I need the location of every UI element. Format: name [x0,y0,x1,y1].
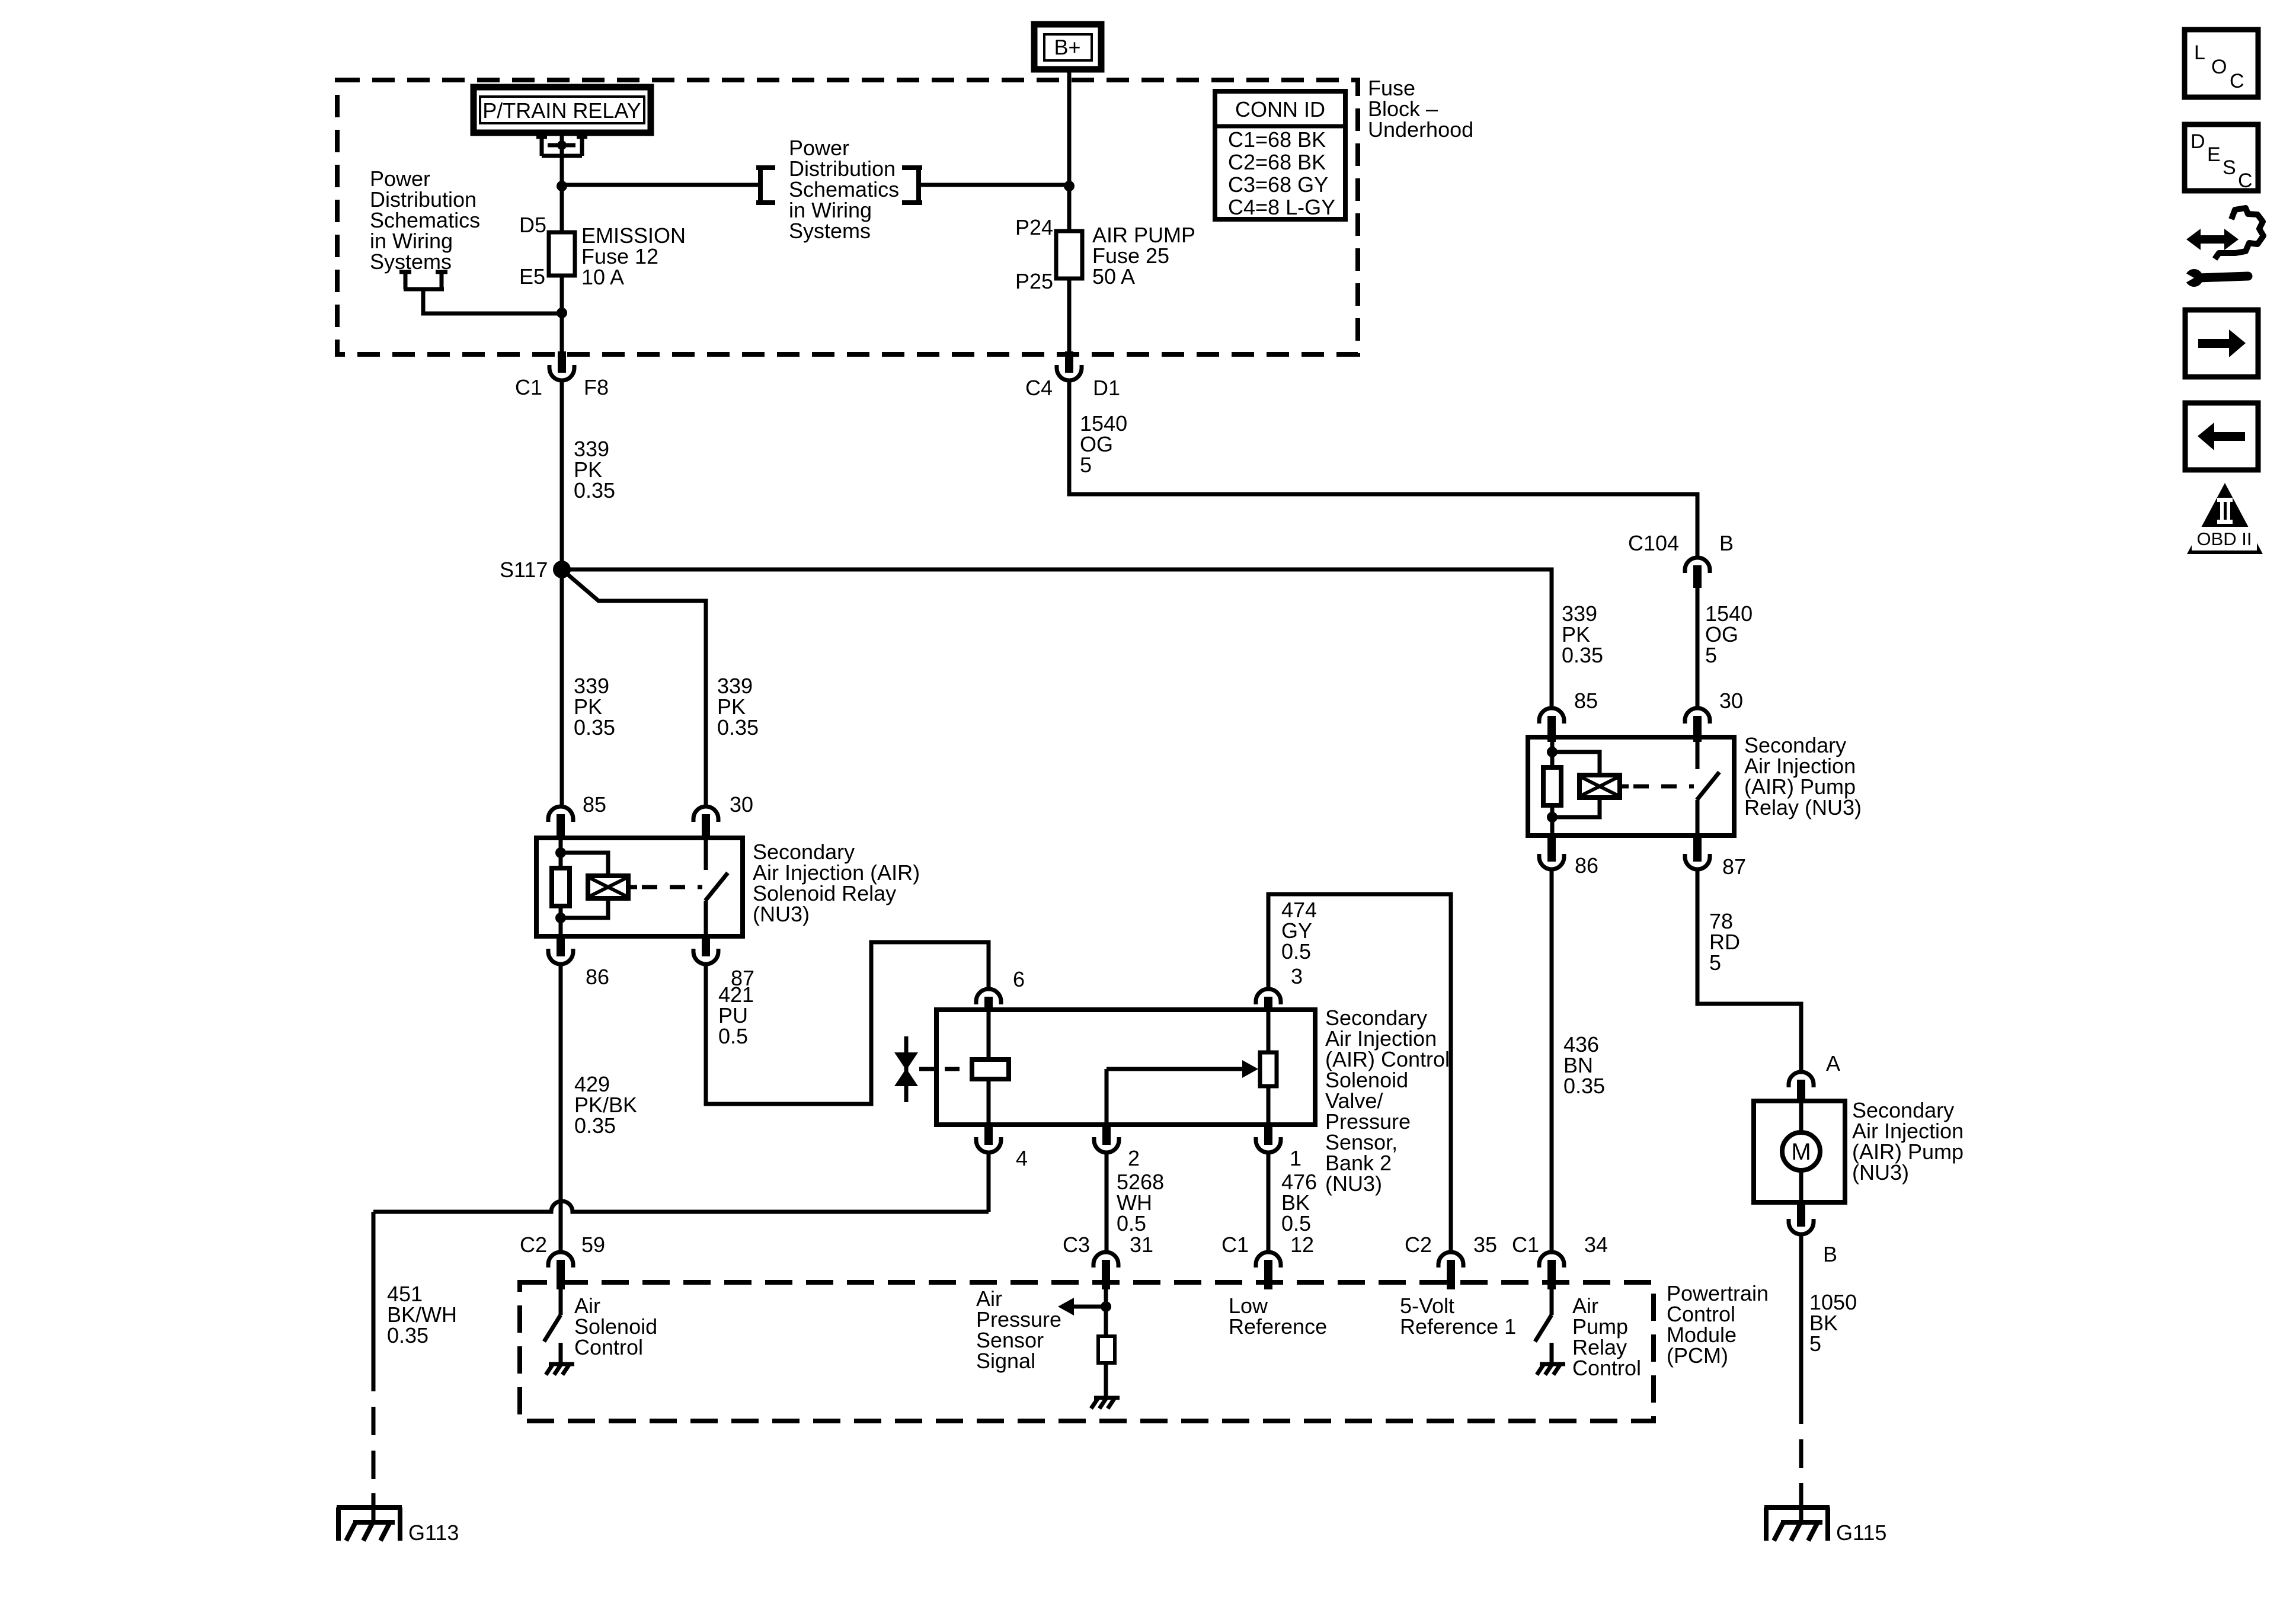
svg-text:Underhood: Underhood [1368,117,1473,142]
wire 451 BK/WH from valve pin 4 to ground G113 (hops over 429 wire) [373,1154,989,1507]
svg-text:(NU3): (NU3) [753,902,810,926]
power distribution reference brackets (middle) [756,165,775,205]
CONN ID table [1215,91,1345,219]
wire resistor to ground [1104,1363,1108,1397]
svg-text:B+: B+ [1054,35,1080,59]
left reference bracket [399,272,447,289]
svg-text:G115: G115 [1836,1521,1886,1545]
svg-text:B: B [1823,1242,1837,1266]
svg-text:(NU3): (NU3) [1852,1160,1909,1185]
fuse block underhood dashed box [337,80,1358,354]
svg-text:C1: C1 [1512,1233,1539,1257]
connector pin 2 of valve [1094,1137,1119,1153]
svg-text:87: 87 [1722,854,1746,879]
svg-text:86: 86 [1575,853,1598,878]
junction dot B+ branch on P/TRAIN wire [557,181,567,191]
svg-text:C1=68 BK: C1=68 BK [1228,127,1326,152]
wire from pin1 to PCM C1/12 [1267,1154,1271,1250]
relay: Secondary Air Injection (AIR) Solenoid Relay (NU3) [536,838,743,936]
svg-text:C2: C2 [520,1233,547,1257]
svg-text:12: 12 [1290,1233,1314,1257]
icon LOC [2185,30,2258,97]
svg-text:5: 5 [1080,453,1092,477]
wire 1540 OG from C4/D1 to C104 [1069,381,1697,556]
connector pin 30 of solenoid relay [693,806,718,822]
ground (air pump relay control) [1537,1364,1565,1375]
air solenoid control driver switch [544,1289,561,1363]
svg-text:CONN ID: CONN ID [1235,97,1325,121]
svg-text:30: 30 [730,792,753,817]
AIR control solenoid valve / pressure sensor box [936,1010,1315,1125]
icon OBD II triangle [2187,483,2263,554]
connector pin 30 of pump relay [1685,708,1710,724]
connector C104 B [1685,558,1710,573]
svg-text:34: 34 [1584,1233,1608,1257]
relay: Secondary Air Injection (AIR) Pump Relay (NU3) [1528,737,1734,836]
svg-text:L: L [2194,41,2205,64]
junction dot on B+ wire [1064,181,1075,191]
connector C2 59 (PCM) [548,1252,573,1267]
svg-text:S: S [2223,156,2236,179]
connector B of AIR pump [1789,1219,1814,1234]
svg-text:C2=68 BK: C2=68 BK [1228,150,1326,174]
P/TRAIN RELAY box [474,87,651,133]
connector pin 87 of pump relay [1685,854,1710,869]
connector pin 1 of valve [1256,1137,1281,1153]
ground G115 [1764,1493,1830,1541]
wire from left reference to EMISSION fuse wire [423,290,562,313]
svg-text:E5: E5 [519,264,545,289]
wire 1540 OG from C104 to pump relay 30 [1696,588,1700,706]
pressure sensor element (potentiometer) [1267,1010,1271,1052]
connector pin 4 of valve [976,1137,1001,1153]
EMISSION Fuse 12 10A fuse symbol [560,232,564,354]
svg-text:D5: D5 [519,213,546,237]
svg-text:0.35: 0.35 [574,715,615,740]
connector A of AIR pump [1789,1072,1814,1087]
svg-text:G113: G113 [408,1521,459,1545]
AIR PUMP Fuse 25 50A fuse symbol [1067,231,1072,354]
connector C3 31 (PCM) [1093,1252,1118,1267]
svg-text:0.35: 0.35 [1562,643,1603,667]
svg-text:0.35: 0.35 [574,478,615,502]
ground G113 [337,1493,402,1541]
svg-text:(NU3): (NU3) [1325,1172,1382,1196]
svg-text:0.35: 0.35 [717,715,759,740]
svg-text:10 A: 10 A [581,265,624,289]
solenoid coil in valve box [987,1010,991,1125]
svg-text:3: 3 [1291,964,1303,988]
svg-text:30: 30 [1719,689,1743,713]
svg-text:A: A [1826,1051,1840,1076]
svg-text:D1: D1 [1093,376,1120,400]
svg-text:5: 5 [1705,643,1717,667]
wire 421 PU from 87 to AIR control solenoid valve pin 6 [706,942,989,1104]
svg-text:(PCM): (PCM) [1667,1343,1728,1368]
connector C2 35 (PCM) [1438,1252,1463,1267]
svg-text:6: 6 [1013,967,1025,991]
connector pin 86 of pump relay [1539,854,1564,869]
input resistor [1098,1336,1115,1363]
svg-text:4: 4 [1016,1146,1028,1170]
connector C1 F8 (fuse block exit) [549,365,574,380]
connector pin 85 of pump relay [1539,708,1564,724]
svg-text:S117: S117 [500,558,548,582]
connector pin 86 of solenoid relay [548,949,573,964]
svg-text:0.5: 0.5 [718,1024,748,1048]
svg-text:5: 5 [1709,950,1721,975]
icon diagnostic car and wrench [2182,208,2263,287]
svg-text:0.5: 0.5 [1281,1211,1311,1235]
svg-text:0.5: 0.5 [1281,939,1311,964]
svg-text:0.5: 0.5 [1117,1211,1146,1235]
svg-text:OBD II: OBD II [2196,529,2252,549]
connector C1 34 (PCM) [1539,1252,1564,1267]
splice S117 [553,561,571,578]
svg-text:1: 1 [1290,1146,1302,1170]
svg-text:Signal: Signal [976,1349,1035,1373]
air pump relay control driver switch [1535,1289,1552,1363]
svg-text:F8: F8 [584,375,609,399]
wire mid horizontal to power distribution reference [562,183,758,187]
connector pin 6 of AIR control solenoid valve [976,989,1001,1004]
ground (air solenoid control) [546,1364,574,1375]
svg-text:B: B [1719,531,1734,555]
svg-text:85: 85 [583,792,606,817]
svg-text:C2: C2 [1405,1233,1432,1257]
P/TRAIN relay cavity connector symbol [536,133,587,232]
connector C1 12 (PCM) [1256,1252,1281,1267]
connector C4 D1 (fuse block exit) [1057,365,1082,380]
dashed link bowtie to solenoid coil [919,1067,970,1071]
connector pin 3 of AIR control solenoid valve [1256,989,1281,1004]
svg-text:E: E [2207,143,2221,166]
right bracket of middle reference [902,165,922,205]
pressure sensor wiper arrow [1107,1067,1242,1071]
AIR pump box with motor [1754,1101,1845,1202]
wire 429 PK/BK from 86 down to PCM C2/59 [559,966,563,1250]
svg-text:C1: C1 [1221,1233,1249,1257]
wire from reference to B+ wire [921,183,1069,187]
pin2 lead inside valve box [1105,1069,1109,1125]
svg-text:0.35: 0.35 [387,1323,428,1347]
svg-text:C3: C3 [1063,1233,1090,1257]
wire S117 long horizontal to AIR pump relay 85 [562,569,1552,706]
svg-text:0.35: 0.35 [1563,1074,1605,1098]
wire 474 GY from pin3 up over to PCM C2/35 [1268,894,1451,1250]
svg-text:C3=68 GY: C3=68 GY [1228,172,1328,197]
svg-text:86: 86 [586,965,609,989]
svg-text:85: 85 [1574,689,1598,713]
svg-text:Reference 1: Reference 1 [1400,1314,1516,1339]
svg-text:C: C [2238,169,2253,192]
svg-text:D: D [2191,130,2205,153]
wire 436 BN from 86 to PCM C1/34 [1550,871,1554,1250]
svg-text:P24: P24 [1015,215,1053,239]
svg-text:Relay (NU3): Relay (NU3) [1744,795,1862,820]
wire 78 RD from 87 to AIR pump A [1697,871,1801,1070]
icon DESC [2185,124,2258,192]
B+ power node box [1034,24,1101,69]
wire 339 PK from C1/F8 to S117 [560,381,564,569]
icon arrow right [2185,310,2258,377]
svg-text:C1: C1 [515,375,542,399]
svg-text:C104: C104 [1628,531,1679,555]
svg-text:P25: P25 [1015,269,1053,293]
svg-text:M: M [1791,1139,1811,1165]
valve bowtie symbol [894,1036,918,1102]
svg-text:P/TRAIN RELAY: P/TRAIN RELAY [482,98,641,123]
B+ wire down to AIR PUMP fuse [1067,69,1072,231]
svg-text:C: C [2230,70,2244,92]
svg-text:Control: Control [574,1335,643,1359]
svg-text:5: 5 [1809,1331,1821,1356]
svg-text:Control: Control [1572,1356,1641,1380]
air pressure sensor signal input [1058,1289,1111,1336]
svg-text:O: O [2211,56,2227,78]
junction dot below EMISSION fuse [557,308,567,318]
icon arrow left [2185,403,2258,470]
svg-text:Reference: Reference [1229,1314,1327,1339]
svg-text:35: 35 [1473,1233,1497,1257]
wire from pin2 to PCM C3/31 [1105,1154,1109,1250]
wire S117 diagonal branch to relay 30 [562,569,706,806]
svg-text:50 A: 50 A [1092,264,1135,289]
svg-text:C4: C4 [1025,376,1053,400]
connector pin 87 of solenoid relay [693,949,718,964]
connector pin 85 of solenoid relay [548,806,573,822]
svg-text:59: 59 [581,1233,605,1257]
wire S117 down to solenoid relay 85 [560,569,564,806]
wire 1050 BK from pump B to ground G115 [1799,1236,1803,1507]
svg-text:C4=8 L-GY: C4=8 L-GY [1228,195,1335,219]
ground (sensor signal) [1091,1398,1120,1409]
svg-text:Systems: Systems [789,219,871,243]
svg-text:31: 31 [1130,1233,1153,1257]
svg-text:0.35: 0.35 [574,1113,616,1138]
PCM dashed box [520,1282,1654,1421]
svg-text:2: 2 [1128,1146,1140,1170]
